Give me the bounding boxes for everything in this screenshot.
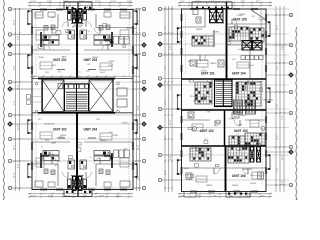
svg-text:DINING: DINING: [100, 140, 107, 142]
svg-text:12'-0": 12'-0": [48, 195, 53, 197]
svg-text:10x12: 10x12: [108, 65, 113, 67]
svg-text:CPT.: CPT.: [204, 139, 208, 141]
svg-text:UNIT 204: UNIT 204: [84, 128, 98, 132]
svg-text:7'-2": 7'-2": [165, 65, 167, 70]
svg-text:BEDROOM: BEDROOM: [263, 100, 273, 102]
svg-text:5'-8": 5'-8": [282, 45, 284, 50]
svg-text:7'-2": 7'-2": [165, 25, 167, 30]
svg-text:BATH: BATH: [238, 111, 243, 114]
svg-text:11'-6": 11'-6": [165, 99, 167, 105]
svg-text:BATH: BATH: [51, 141, 56, 144]
svg-text:11'-6": 11'-6": [277, 24, 279, 30]
svg-text:7'-2": 7'-2": [282, 115, 284, 120]
svg-text:UNIT 105: UNIT 105: [233, 18, 247, 22]
svg-text:8'-2": 8'-2": [181, 1, 185, 3]
svg-text:12'-0": 12'-0": [31, 195, 36, 197]
svg-text:12'-4": 12'-4": [13, 19, 15, 25]
svg-text:11'-6": 11'-6": [138, 174, 140, 180]
svg-text:10'-8": 10'-8": [95, 1, 100, 3]
svg-text:9'-6": 9'-6": [261, 195, 265, 197]
svg-text:10-0: 10-0: [124, 149, 128, 151]
svg-text:BEDROOM: BEDROOM: [243, 169, 253, 171]
svg-text:11'-6": 11'-6": [277, 134, 279, 140]
svg-text:BEDROOM: BEDROOM: [127, 28, 137, 30]
svg-text:9'-0": 9'-0": [13, 65, 15, 70]
svg-text:11'-6": 11'-6": [13, 144, 15, 150]
svg-text:LIVING: LIVING: [122, 123, 128, 125]
svg-text:8'-2": 8'-2": [241, 1, 245, 3]
svg-text:5'-8": 5'-8": [277, 167, 279, 172]
svg-text:5'-8": 5'-8": [18, 35, 20, 40]
svg-text:DINING: DINING: [92, 57, 99, 59]
svg-text:10-0: 10-0: [51, 17, 55, 19]
svg-text:J: J: [9, 161, 10, 163]
svg-text:UNIT 103: UNIT 103: [234, 129, 248, 133]
svg-text:5'-8": 5'-8": [170, 45, 172, 50]
svg-text:11'-6": 11'-6": [165, 169, 167, 175]
svg-text:W.I.C.: W.I.C.: [59, 137, 64, 139]
svg-text:REF.: REF.: [188, 179, 192, 181]
svg-text:UNIT 201: UNIT 201: [53, 58, 67, 62]
svg-text:DW: DW: [207, 111, 210, 113]
svg-text:BEDROOM: BEDROOM: [45, 124, 55, 126]
svg-text:10'-8": 10'-8": [47, 1, 52, 3]
svg-text:CPT.: CPT.: [232, 59, 236, 61]
svg-text:9'-6": 9'-6": [213, 195, 217, 197]
svg-text:10x12: 10x12: [100, 72, 105, 74]
svg-text:BEDROOM: BEDROOM: [72, 26, 82, 28]
svg-text:9'-6": 9'-6": [197, 195, 201, 197]
svg-text:9'-0": 9'-0": [138, 105, 140, 110]
svg-text:5'-8": 5'-8": [170, 155, 172, 160]
svg-text:11'-6": 11'-6": [13, 172, 15, 178]
svg-text:UNIT 106: UNIT 106: [232, 174, 246, 178]
svg-text:W.I.C.: W.I.C.: [54, 165, 59, 167]
svg-text:LIVING: LIVING: [38, 57, 44, 59]
svg-text:9'-0": 9'-0": [165, 135, 167, 140]
svg-text:9x11: 9x11: [250, 65, 254, 67]
svg-text:UNIT 202: UNIT 202: [53, 128, 67, 132]
svg-text:DINING: DINING: [210, 63, 217, 65]
svg-text:11'-6": 11'-6": [282, 154, 284, 160]
svg-text:11'-6": 11'-6": [170, 119, 172, 125]
svg-text:5'-8": 5'-8": [18, 163, 20, 168]
svg-text:CL: CL: [203, 68, 205, 70]
svg-text:W.I.C.: W.I.C.: [231, 36, 236, 38]
svg-text:W.I.C.: W.I.C.: [76, 72, 81, 74]
svg-text:12'-0": 12'-0": [116, 195, 121, 197]
svg-text:BATH: BATH: [62, 55, 67, 58]
svg-text:W.I.C.: W.I.C.: [190, 96, 195, 98]
svg-text:DINING: DINING: [196, 29, 203, 31]
svg-text:BATH: BATH: [184, 167, 189, 170]
svg-text:CL: CL: [88, 31, 90, 33]
svg-text:CL: CL: [41, 147, 43, 149]
svg-text:DINING: DINING: [240, 115, 247, 117]
svg-text:CL: CL: [237, 134, 239, 136]
svg-text:LIVING: LIVING: [229, 119, 235, 121]
svg-text:LIVING: LIVING: [250, 183, 256, 185]
svg-text:REF.: REF.: [188, 61, 192, 63]
svg-text:5'-8": 5'-8": [138, 65, 140, 70]
svg-text:9'-0": 9'-0": [282, 180, 284, 185]
svg-text:12'-0": 12'-0": [99, 195, 104, 197]
svg-text:CL: CL: [89, 157, 91, 159]
svg-text:12'-4": 12'-4": [18, 124, 20, 130]
svg-text:10-0: 10-0: [86, 70, 90, 72]
svg-text:10'-8": 10'-8": [31, 1, 36, 3]
svg-text:7'-2": 7'-2": [13, 100, 15, 105]
svg-text:CL: CL: [191, 119, 193, 121]
svg-text:CL: CL: [203, 95, 205, 97]
svg-text:10'-8": 10'-8": [111, 1, 116, 3]
svg-text:10-0: 10-0: [109, 132, 113, 134]
svg-text:9x11: 9x11: [238, 49, 242, 51]
svg-text:5'-8": 5'-8": [277, 103, 279, 108]
svg-text:LIVING: LIVING: [112, 135, 118, 137]
svg-text:9'-0": 9'-0": [277, 65, 279, 70]
svg-text:11'-6": 11'-6": [138, 144, 140, 150]
svg-text:BATH: BATH: [194, 99, 199, 102]
svg-text:CPT.: CPT.: [188, 117, 192, 119]
svg-text:7'-2": 7'-2": [170, 85, 172, 90]
svg-text:DINING: DINING: [206, 185, 213, 187]
svg-text:DINING: DINING: [232, 185, 239, 187]
svg-text:11'-6": 11'-6": [138, 19, 140, 25]
svg-text:LIVING: LIVING: [213, 32, 219, 34]
svg-text:LIVING: LIVING: [237, 15, 243, 17]
svg-text:LIVING: LIVING: [108, 61, 114, 63]
svg-text:8'-2": 8'-2": [256, 1, 260, 3]
svg-text:J: J: [143, 161, 144, 163]
svg-text:UNIT 104: UNIT 104: [232, 72, 246, 76]
svg-text:CPT.: CPT.: [38, 119, 42, 121]
svg-text:LIVING: LIVING: [201, 71, 207, 73]
svg-text:10'-8": 10'-8": [127, 1, 132, 3]
